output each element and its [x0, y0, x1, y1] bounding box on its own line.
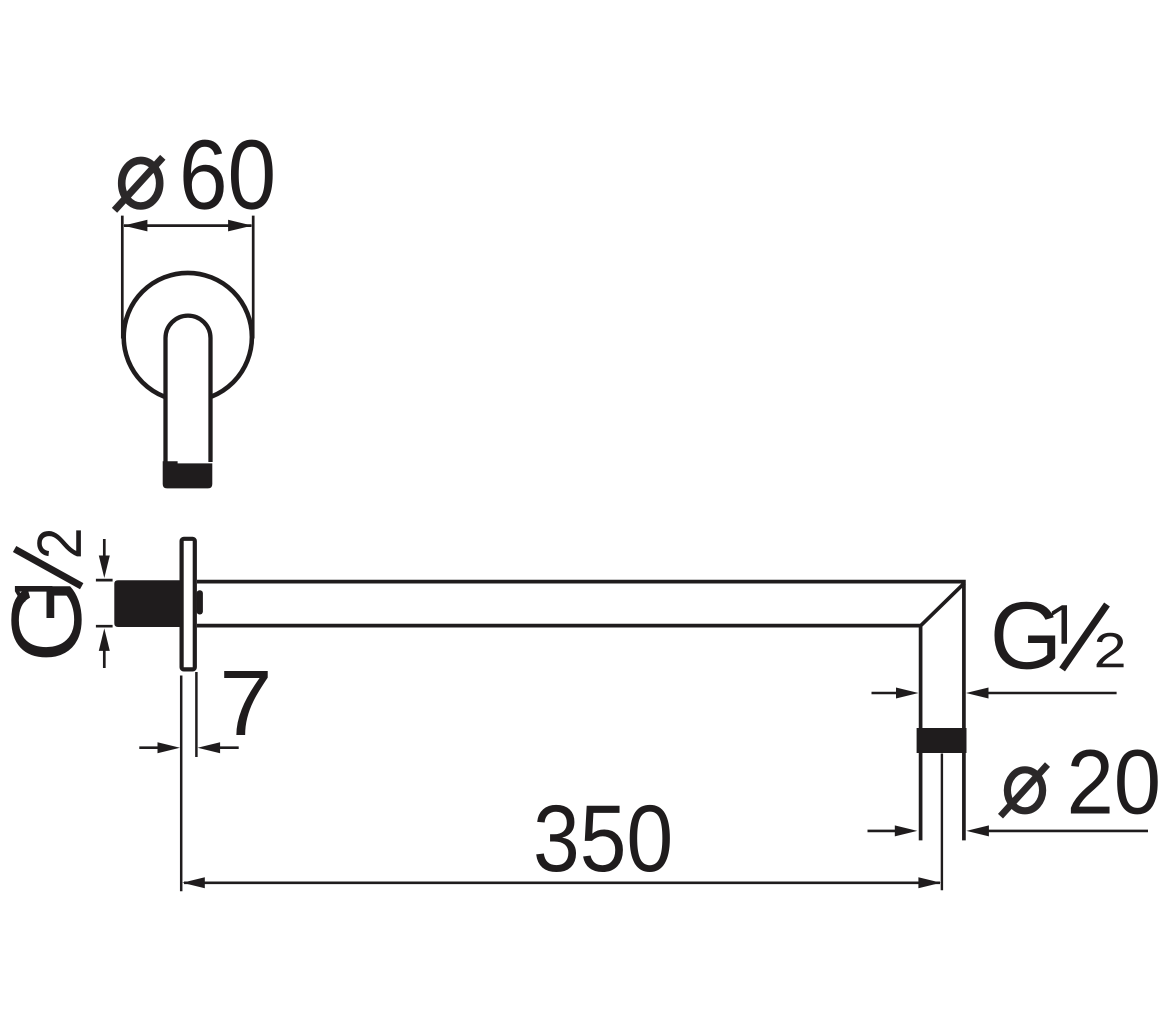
fraction slash (left label) — [15, 549, 82, 586]
numeral 2 (right label) — [1097, 633, 1124, 667]
bend chamfer line — [921, 583, 964, 625]
fraction slash (right label) — [1062, 605, 1107, 670]
dimension ø20: left arrow line — [868, 830, 897, 833]
dimension G1/2 left: tick bottom — [96, 625, 113, 628]
dimension 350: right arrowhead — [918, 877, 941, 888]
numeral 1 (right label) — [1052, 605, 1067, 644]
dimension G1/2 left: upper arrowhead (down) — [99, 556, 110, 579]
numeral 1 (left label) — [15, 586, 52, 602]
dimension ø20: right arrowhead — [966, 825, 989, 836]
G glyph (left label) — [11, 586, 81, 657]
dimension 7: left arrowhead — [158, 742, 181, 753]
label G1/2 right — [994, 602, 1123, 670]
dimension G1/2 left: upper arrow line — [103, 539, 106, 560]
dimension G1/2 left: lower arrowhead (up) — [99, 628, 110, 651]
wall flange side view (plate) — [182, 539, 195, 670]
label 350 value — [536, 805, 670, 872]
label ø60 diameter symbol — [115, 157, 163, 210]
arm tube bottom line — [197, 626, 921, 841]
dimension G1/2 left: lower arrow line — [103, 647, 106, 668]
dimension G1/2 right: left arrow line — [872, 692, 898, 695]
dimension ø20: right arrow line — [986, 830, 1148, 833]
tube stub right of flange — [197, 590, 203, 614]
threaded end front view — [163, 461, 213, 488]
dimension 7: extension line left (long, shared with 350) — [180, 676, 183, 892]
dimension 7: extension line right — [195, 672, 198, 757]
dimension ø60 line — [124, 224, 252, 227]
arm tube top line — [197, 582, 964, 841]
label ø20 value — [1071, 749, 1158, 814]
dimension ø60 extension line left — [121, 216, 124, 339]
label 7 value — [224, 671, 268, 735]
threaded inlet side view (black) — [114, 580, 183, 627]
dimension G1/2 right: right arrow line — [986, 692, 1117, 695]
label G1/2 left (rotated) — [11, 530, 81, 657]
dimension ø60 arrowhead left — [123, 220, 147, 232]
dimension 7: left arrow line — [139, 746, 160, 749]
dimension 350: line — [184, 881, 940, 884]
flange circle (wall plate, front) — [124, 273, 252, 401]
dimension 350: left arrowhead — [182, 877, 205, 888]
outlet center line — [941, 754, 943, 891]
label ø60 value text — [183, 140, 272, 210]
threaded outlet side view (black band) — [917, 728, 967, 753]
dimension 7: right arrowhead — [198, 742, 221, 753]
arm tube front view (U outline, occludes circle) — [166, 316, 211, 462]
dimension G1/2 left: tick top — [96, 579, 113, 582]
dimension ø60 arrowhead right — [228, 220, 252, 232]
dimension ø20: left arrowhead — [895, 825, 918, 836]
label ø20 diameter symbol — [1001, 765, 1048, 817]
G glyph (right label) — [994, 602, 1055, 670]
dimension ø60 extension line right — [252, 216, 255, 339]
numeral 2 (left label) — [37, 530, 81, 556]
dimension G1/2 right: right arrowhead — [966, 688, 989, 699]
dimension 7: right arrow line — [218, 746, 239, 749]
dimension G1/2 right: left arrowhead — [896, 688, 919, 699]
